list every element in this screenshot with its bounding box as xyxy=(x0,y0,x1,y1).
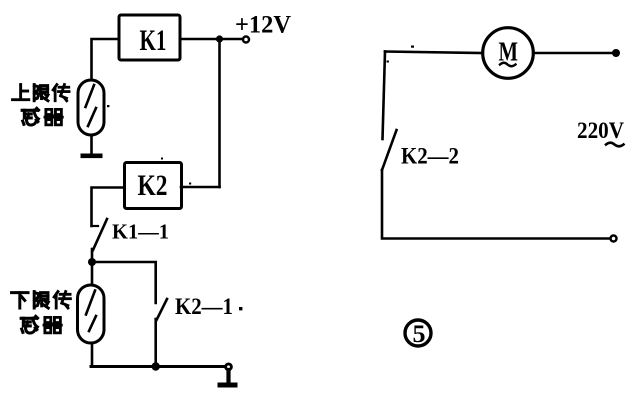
svg-text:K2—1: K2—1 xyxy=(175,294,233,319)
svg-text:K2—2: K2—2 xyxy=(401,144,459,169)
label 下限传感器 line2 xyxy=(21,316,61,333)
speck below motor wire corner xyxy=(387,61,389,63)
wire switch K2-1 to bottom xyxy=(154,319,157,367)
speck near upper sensor xyxy=(107,105,109,107)
wire sensor to ground xyxy=(90,135,93,154)
wire below switch to bottom rail xyxy=(382,170,610,239)
speck right of K2 box xyxy=(189,183,191,185)
ground (upper sensor) xyxy=(81,154,103,159)
speck above K2 box xyxy=(161,158,163,160)
svg-text:K1—1: K1—1 xyxy=(112,220,169,244)
switch K2-2 xyxy=(382,130,397,170)
wire K2 left down to switch K1-1 xyxy=(92,188,125,227)
terminal ring at ground xyxy=(226,364,232,370)
svg-text:K2: K2 xyxy=(138,169,168,202)
wire motor right to terminal xyxy=(534,52,615,55)
punctuation dot after K2-1 xyxy=(239,307,242,310)
relay coil K1 xyxy=(119,15,180,60)
wire K1 left to sensor top xyxy=(92,39,120,80)
figure number 5 (circled) xyxy=(405,320,431,346)
wire bottom rail xyxy=(91,365,226,368)
label 下限传感器 line1 xyxy=(12,292,71,309)
svg-text:5: 5 xyxy=(413,321,426,348)
switch K1-1 xyxy=(92,219,108,250)
label 上限传感器 line2 xyxy=(22,108,62,125)
wire switch to node B xyxy=(91,249,94,262)
node B junction xyxy=(88,258,96,266)
wire branch node B to switch K2-1 xyxy=(92,262,156,303)
wire K2 right to bus xyxy=(181,186,220,189)
speck above motor wire xyxy=(411,46,414,48)
node C junction xyxy=(152,362,160,370)
motor M xyxy=(483,28,534,79)
svg-text:K1: K1 xyxy=(140,24,167,57)
switch K2-1 xyxy=(157,299,168,320)
wire bus vertical from +12V node to K2 xyxy=(218,39,221,187)
sensor upper limit (上限传感器) xyxy=(78,80,104,135)
terminal bottom right (open circle) xyxy=(611,236,617,242)
terminal top right (solid dot) xyxy=(612,49,620,57)
svg-text:M: M xyxy=(499,37,519,67)
node junction +12V bus xyxy=(216,35,223,42)
relay coil K2 xyxy=(125,163,182,209)
wire node B down to lower sensor xyxy=(91,262,94,285)
wire lower sensor to bottom rail xyxy=(91,343,94,367)
ground (bottom right) xyxy=(218,370,238,388)
svg-text:+12V: +12V xyxy=(235,12,291,39)
sensor lower limit (下限传感器) xyxy=(78,285,105,343)
wire left vertical down to switch K2-2 xyxy=(383,52,386,140)
tilde under M xyxy=(500,63,516,66)
wire motor loop top left xyxy=(385,52,483,54)
svg-text:220V: 220V xyxy=(577,118,624,143)
terminal +12V (open circle) xyxy=(243,37,249,43)
tilde under 220V xyxy=(606,143,624,147)
wire K1 right to +12V terminal xyxy=(180,38,242,41)
label 上限传感器 line1 xyxy=(13,85,70,101)
